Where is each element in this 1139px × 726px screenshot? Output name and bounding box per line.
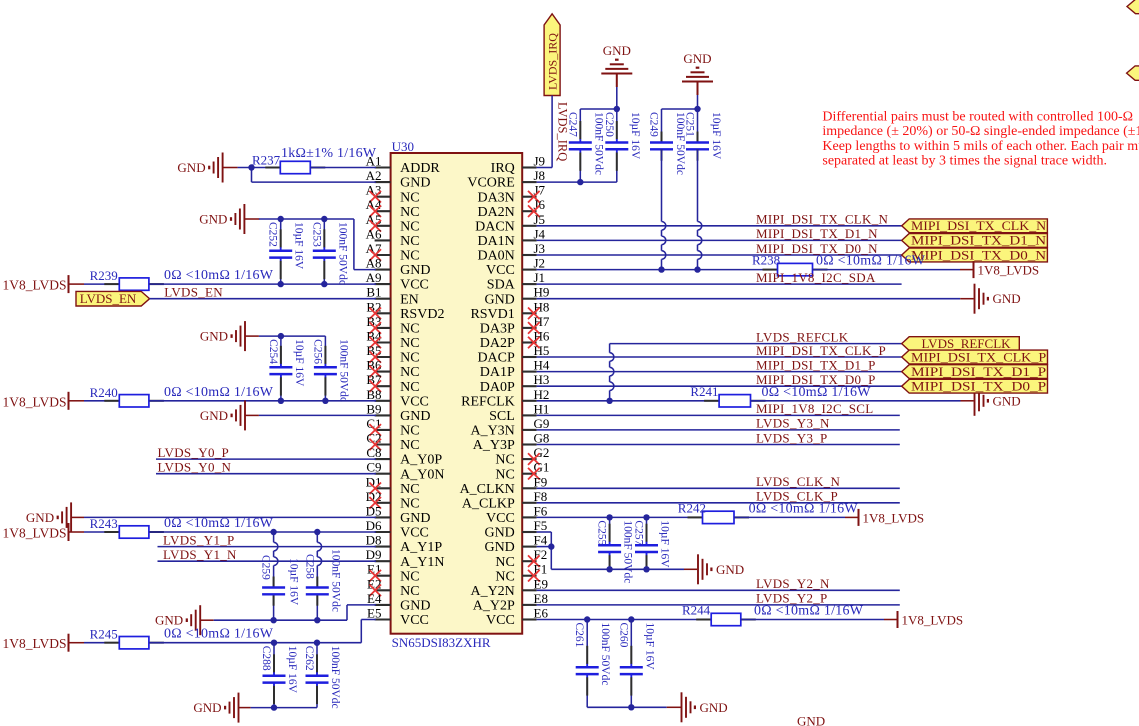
svg-text:GND: GND [603, 43, 631, 58]
pin E5 (VCC) [367, 606, 429, 629]
wire [537, 400, 720, 402]
port LVDS_REFCLK [902, 336, 1020, 351]
svg-text:MIPI_1V8_I2C_SCL: MIPI_1V8_I2C_SCL [756, 401, 873, 416]
svg-text:0Ω <10mΩ 1/16W: 0Ω <10mΩ 1/16W [762, 385, 872, 400]
capacitor C255 [596, 517, 634, 583]
svg-text:100nF 50Vdc: 100nF 50Vdc [622, 520, 634, 583]
svg-text:SDA: SDA [487, 278, 516, 293]
svg-text:10µF 16V: 10µF 16V [286, 646, 298, 694]
pin J7 (DA3N) [477, 183, 545, 206]
svg-text:DA3N: DA3N [477, 190, 514, 205]
svg-text:GND: GND [993, 393, 1021, 408]
power 1V8_LVDS (R245) [2, 634, 84, 652]
wire [610, 343, 902, 345]
svg-text:GND: GND [484, 540, 514, 555]
wire [149, 531, 376, 533]
capacitor C260 [617, 620, 655, 708]
svg-text:LVDS_EN: LVDS_EN [164, 285, 223, 300]
junction [314, 640, 320, 646]
pin G8 (A_Y3P) [473, 431, 550, 454]
power 1V8_LVDS (J2) [960, 261, 1039, 278]
svg-text:R242: R242 [678, 500, 706, 515]
svg-text:LVDS_Y0_P: LVDS_Y0_P [158, 445, 230, 460]
svg-text:A_CLKN: A_CLKN [460, 482, 515, 497]
svg-text:C260: C260 [617, 623, 629, 648]
pin J4 (DA1N) [477, 226, 545, 249]
net label MIPI_DSI_TX_CLK_N [756, 212, 889, 227]
junction [271, 640, 277, 646]
wire [214, 605, 376, 620]
svg-text:LVDS_CLK_N: LVDS_CLK_N [756, 474, 840, 489]
wire [84, 516, 376, 518]
svg-text:A2: A2 [366, 168, 382, 183]
ground (C250 stem) [601, 43, 632, 87]
wire [537, 298, 961, 300]
power 1V8_LVDS (B8) [2, 392, 84, 410]
port MIPI_DSI_TX_D1_N [902, 233, 1048, 248]
wire [616, 87, 618, 109]
port MIPI_DSI_TX_D1_P [902, 364, 1048, 379]
svg-text:VCORE: VCORE [467, 176, 514, 191]
svg-text:F4: F4 [534, 533, 548, 548]
svg-text:NC: NC [400, 380, 419, 395]
svg-text:1V8_LVDS: 1V8_LVDS [2, 636, 66, 651]
svg-text:MIPI_1V8_I2C_SDA: MIPI_1V8_I2C_SDA [756, 270, 876, 285]
resistor R239 [90, 268, 274, 290]
svg-text:A_Y1N: A_Y1N [400, 555, 444, 570]
svg-text:C249: C249 [648, 112, 660, 137]
wire [537, 532, 552, 569]
pin A8 (GND) [366, 256, 431, 279]
pin H4 (DA1P) [480, 358, 550, 381]
svg-text:0Ω <10mΩ 1/16W: 0Ω <10mΩ 1/16W [754, 604, 864, 619]
svg-text:VCC: VCC [400, 394, 429, 409]
pin F6 (VCC) [486, 503, 548, 526]
pin A9 (VCC) [366, 270, 429, 293]
svg-text:C258: C258 [303, 554, 315, 579]
svg-text:C255: C255 [596, 520, 608, 545]
capacitor C288 [260, 643, 298, 708]
capacitor C262 [303, 643, 341, 709]
svg-text:Keep lengths to within 5 mils: Keep lengths to within 5 mils of each ot… [822, 139, 1139, 154]
svg-text:0Ω <10mΩ 1/16W: 0Ω <10mΩ 1/16W [749, 501, 859, 516]
wire [537, 239, 902, 241]
wire [587, 706, 667, 708]
wire [259, 219, 376, 270]
pin B2 (RSVD2) [366, 299, 444, 322]
resistor R238 [752, 253, 926, 276]
capacitor C250 [603, 109, 641, 182]
svg-text:B9: B9 [366, 401, 381, 416]
junction [278, 398, 284, 404]
svg-text:J4: J4 [534, 226, 546, 241]
wire [251, 707, 317, 709]
ground (C254/C256) [200, 321, 259, 351]
svg-text:C250: C250 [603, 112, 615, 137]
pin C8 (A_Y0P) [366, 445, 442, 468]
svg-text:RSVD2: RSVD2 [400, 307, 444, 322]
wire [537, 414, 900, 416]
pin J5 (DACN) [475, 212, 545, 235]
svg-text:R239: R239 [90, 268, 118, 283]
svg-text:LVDS_Y3_P: LVDS_Y3_P [756, 430, 828, 445]
svg-text:A_Y2N: A_Y2N [470, 584, 514, 599]
net label MIPI_DSI_TX_D0_P [756, 372, 876, 387]
svg-text:R237: R237 [252, 153, 281, 168]
wire [537, 487, 900, 489]
capacitor C253 [310, 219, 348, 285]
svg-text:B8: B8 [366, 387, 381, 402]
wire [537, 96, 553, 168]
svg-text:F6: F6 [534, 503, 548, 518]
junction [321, 216, 327, 222]
svg-text:SN65DSI83ZXHR: SN65DSI83ZXHR [392, 635, 491, 650]
svg-text:R244: R244 [682, 603, 711, 618]
junction [270, 617, 276, 623]
pin A2 (GND) [366, 168, 431, 191]
svg-text:100nF 50Vdc: 100nF 50Vdc [336, 222, 348, 285]
port MIPI_DSI_TX_CLK_N [902, 218, 1048, 233]
junction [321, 281, 327, 287]
svg-text:NC: NC [495, 569, 514, 584]
net label LVDS_Y2_P [756, 591, 828, 606]
svg-text:separated at least by 3 times: separated at least by 3 times the signal… [822, 154, 1107, 169]
resistor R242 [678, 500, 859, 523]
svg-text:RSVD1: RSVD1 [470, 307, 514, 322]
svg-text:C8: C8 [366, 445, 381, 460]
pin G9 (A_Y3N) [470, 416, 549, 439]
svg-text:DA3P: DA3P [480, 322, 515, 337]
net label LVDS_Y0_P [158, 445, 230, 460]
svg-text:C251: C251 [684, 112, 696, 137]
port MIPI_DSI_TX_CLK_P [902, 349, 1048, 364]
net label LVDS_Y1_N [163, 547, 237, 562]
svg-text:DA2P: DA2P [480, 336, 515, 351]
svg-text:LVDS_IRQ: LVDS_IRQ [545, 33, 559, 90]
svg-text:GND: GND [400, 511, 430, 526]
pin J2 (VCC) [486, 256, 545, 279]
svg-text:E9: E9 [534, 576, 548, 591]
svg-text:MIPI_DSI_TX_D1_N: MIPI_DSI_TX_D1_N [756, 226, 878, 241]
junction [278, 281, 284, 287]
svg-text:DA0P: DA0P [480, 380, 515, 395]
junction [314, 529, 320, 535]
pin H7 (DA3P) [480, 314, 550, 337]
wire [158, 560, 377, 562]
pin B8 (VCC) [366, 387, 429, 410]
svg-text:GND: GND [26, 510, 54, 525]
svg-text:C254: C254 [267, 339, 279, 364]
svg-text:D6: D6 [366, 518, 382, 533]
svg-text:MIPI_DSI_TX_D1_P: MIPI_DSI_TX_D1_P [911, 364, 1046, 379]
wire [537, 356, 902, 358]
svg-text:GND: GND [700, 700, 728, 715]
svg-text:D8: D8 [366, 533, 382, 548]
resistor R243 [90, 516, 274, 538]
junction [658, 266, 664, 272]
svg-text:A_Y3P: A_Y3P [473, 438, 515, 453]
pin B9 (GND) [366, 401, 430, 424]
wire [537, 181, 617, 183]
pin A3 (NC) [366, 183, 420, 206]
wire [662, 108, 698, 110]
pin A7 (NC) [366, 241, 420, 264]
wire [537, 254, 902, 256]
net label LVDS_IRQ [556, 102, 570, 161]
port LVDS_EN [76, 291, 150, 306]
svg-text:H4: H4 [534, 358, 550, 373]
svg-text:NC: NC [400, 569, 419, 584]
ground (C261/C260 rail) [667, 692, 728, 722]
svg-text:E6: E6 [534, 606, 549, 621]
svg-text:MIPI_DSI_TX_D0_P: MIPI_DSI_TX_D0_P [756, 372, 876, 387]
capacitor C258 [303, 532, 341, 620]
pin D8 (A_Y1P) [366, 533, 443, 556]
svg-text:10µF 16V: 10µF 16V [293, 339, 305, 387]
wire [259, 335, 326, 337]
pin E1 (NC) [367, 562, 420, 585]
svg-text:0Ω <10mΩ 1/16W: 0Ω <10mΩ 1/16W [816, 254, 926, 269]
wire [310, 167, 376, 169]
svg-text:0Ω <10mΩ 1/16W: 0Ω <10mΩ 1/16W [164, 627, 274, 642]
svg-text:F8: F8 [534, 489, 548, 504]
junction [606, 514, 612, 520]
wire [84, 642, 119, 644]
ground (R241 net) [961, 386, 1021, 416]
svg-text:100nF 50Vdc: 100nF 50Vdc [337, 339, 349, 402]
net label LVDS_Y3_P [756, 430, 828, 445]
svg-text:MIPI_DSI_TX_CLK_N: MIPI_DSI_TX_CLK_N [756, 212, 889, 227]
svg-text:100nF 50Vdc: 100nF 50Vdc [329, 549, 341, 612]
power 1V8_LVDS (D6) [2, 523, 84, 541]
wire [537, 371, 902, 373]
svg-text:G8: G8 [534, 431, 550, 446]
svg-text:E5: E5 [367, 606, 381, 621]
svg-text:MIPI_DSI_TX_CLK_P: MIPI_DSI_TX_CLK_P [756, 343, 886, 358]
svg-text:R245: R245 [90, 627, 118, 642]
junction [694, 106, 700, 112]
net label LVDS_Y0_N [158, 460, 232, 475]
svg-text:H9: H9 [534, 285, 550, 300]
svg-text:GND: GND [155, 613, 183, 628]
svg-text:J5: J5 [534, 212, 546, 227]
port LVDS_IRQ [544, 14, 560, 96]
svg-text:10µF 16V: 10µF 16V [288, 558, 300, 606]
svg-text:C259: C259 [260, 555, 272, 580]
svg-text:10µF 16V: 10µF 16V [293, 222, 305, 270]
pin D9 (A_Y1N) [366, 547, 445, 570]
pin J9 (IRQ) [491, 154, 545, 177]
svg-text:ADDR: ADDR [400, 161, 440, 176]
svg-text:NC: NC [400, 584, 419, 599]
port MIPI_DSI_TX_D0_N [902, 247, 1048, 262]
pin J6 (DA2N) [477, 197, 545, 220]
net label LVDS_EN [164, 285, 223, 300]
svg-text:C288: C288 [260, 646, 272, 671]
svg-text:100nF 50Vdc: 100nF 50Vdc [329, 646, 341, 709]
svg-text:LVDS_Y1_N: LVDS_Y1_N [163, 547, 237, 562]
pin A4 (NC) [366, 197, 420, 220]
pin F8 (A_CLKP) [462, 489, 547, 512]
wire [149, 620, 376, 643]
port (partial, right) [1127, 66, 1139, 80]
junction [322, 398, 328, 404]
svg-text:GND: GND [200, 408, 228, 423]
net label MIPI_DSI_TX_D1_P [756, 357, 876, 372]
junction [548, 543, 554, 549]
pin H6 (DA2P) [480, 329, 550, 352]
pin A6 (NC) [366, 226, 420, 249]
svg-text:EN: EN [400, 292, 419, 307]
pin E8 (A_Y2P) [473, 591, 548, 614]
wire [84, 283, 119, 285]
wire [734, 516, 845, 518]
svg-text:D5: D5 [366, 503, 382, 518]
net label MIPI_1V8_I2C_SDA [756, 270, 876, 285]
svg-text:GND: GND [200, 329, 228, 344]
resistor R244 [682, 603, 864, 626]
svg-text:DA1N: DA1N [477, 234, 514, 249]
svg-text:0Ω <10mΩ 1/16W: 0Ω <10mΩ 1/16W [164, 385, 274, 400]
svg-text:J2: J2 [534, 256, 546, 271]
svg-text:H1: H1 [534, 401, 550, 416]
svg-text:0Ω <10mΩ 1/16W: 0Ω <10mΩ 1/16W [164, 268, 274, 283]
power 1V8_LVDS (E6) [884, 611, 963, 628]
svg-text:GND: GND [400, 409, 430, 424]
svg-text:C257: C257 [633, 520, 645, 545]
note text [822, 109, 1139, 168]
ground (C251 stem) [682, 51, 713, 95]
ground (C288/C262 rail) [193, 693, 250, 723]
wire [537, 283, 902, 285]
svg-text:MIPI_DSI_TX_D1_P: MIPI_DSI_TX_D1_P [756, 357, 876, 372]
svg-text:REFCLK: REFCLK [461, 394, 515, 409]
svg-text:GND: GND [400, 263, 430, 278]
pin E9 (A_Y2N) [470, 576, 547, 599]
ground (C252/C253) [199, 204, 259, 234]
svg-text:100nF 50Vdc: 100nF 50Vdc [599, 623, 611, 686]
pin D6 (VCC) [366, 518, 429, 541]
resistor R241 [690, 384, 871, 407]
wire [813, 269, 961, 271]
svg-text:1V8_LVDS: 1V8_LVDS [902, 613, 964, 628]
pin B5 (NC) [366, 343, 419, 366]
wire [751, 400, 961, 402]
pin H1 (SCL) [489, 401, 549, 424]
net label LVDS_CLK_N [756, 474, 840, 489]
wire [156, 473, 376, 475]
svg-text:D9: D9 [366, 547, 382, 562]
svg-text:C256: C256 [311, 339, 323, 364]
svg-text:MIPI_DSI_TX_CLK_P: MIPI_DSI_TX_CLK_P [911, 349, 1046, 364]
svg-text:SCL: SCL [489, 409, 515, 424]
svg-text:A_Y1P: A_Y1P [400, 540, 442, 555]
svg-text:H5: H5 [534, 343, 550, 358]
svg-text:LVDS_Y2_N: LVDS_Y2_N [756, 576, 830, 591]
svg-text:GND: GND [993, 291, 1021, 306]
svg-text:F9: F9 [534, 474, 548, 489]
pin J1 (SDA) [487, 270, 545, 293]
ground (D5) [26, 502, 84, 532]
capacitor C251 [684, 109, 723, 270]
junction [628, 704, 634, 710]
svg-text:C252: C252 [267, 222, 279, 247]
svg-text:R238: R238 [752, 253, 780, 268]
capacitor C259 [260, 532, 300, 620]
pin B4 (NC) [366, 329, 419, 352]
wire [537, 385, 902, 387]
wire [741, 619, 884, 621]
wire [156, 458, 376, 460]
svg-text:G9: G9 [534, 416, 550, 431]
svg-text:LVDS_Y3_N: LVDS_Y3_N [756, 416, 830, 431]
pin F5 (GND) [484, 518, 547, 541]
ground (H9) [960, 284, 1020, 314]
wire [537, 225, 902, 227]
pin H5 (DACP) [477, 343, 549, 366]
svg-text:DA1P: DA1P [480, 365, 515, 380]
svg-text:J8: J8 [534, 168, 546, 183]
svg-text:GND: GND [716, 562, 744, 577]
IC U30 SN65DSI83ZXHR body [391, 139, 523, 650]
wire [149, 283, 376, 285]
wire [537, 546, 552, 548]
svg-text:GND: GND [400, 176, 430, 191]
svg-text:A_CLKP: A_CLKP [462, 496, 515, 511]
pin E4 (GND) [367, 591, 430, 614]
pin J3 (DA0N) [477, 241, 545, 264]
svg-text:VCC: VCC [400, 278, 429, 293]
svg-text:GND: GND [683, 51, 711, 66]
power 1V8_LVDS (F6) [845, 509, 924, 526]
junction [278, 333, 284, 339]
svg-text:DACN: DACN [475, 219, 515, 234]
svg-text:NC: NC [400, 351, 419, 366]
resistor R245 [90, 627, 274, 649]
ground (F rail) [684, 554, 744, 584]
svg-text:NC: NC [400, 496, 419, 511]
net label LVDS_REFCLK [756, 329, 849, 344]
svg-text:GND: GND [484, 526, 514, 541]
net label LVDS_Y3_N [756, 416, 830, 431]
svg-text:C261: C261 [573, 623, 585, 648]
port (partial, top right) [1127, 0, 1139, 14]
net label MIPI_1V8_I2C_SCL [756, 401, 873, 416]
pin C9 (A_Y0N) [366, 460, 444, 483]
junction [694, 266, 700, 272]
svg-text:100nF 50Vdc: 100nF 50Vdc [592, 112, 604, 175]
svg-text:1V8_LVDS: 1V8_LVDS [863, 510, 925, 525]
svg-text:NC: NC [400, 322, 419, 337]
svg-text:10µF 16V: 10µF 16V [629, 112, 641, 160]
wire [537, 269, 778, 271]
pin D2 (NC) [366, 489, 420, 512]
svg-text:GND: GND [484, 292, 514, 307]
wire [537, 502, 900, 504]
wire [252, 168, 377, 183]
pin H9 (GND) [484, 285, 549, 308]
svg-text:A_Y2P: A_Y2P [473, 599, 515, 614]
pin B3 (NC) [366, 314, 419, 337]
junction [628, 616, 634, 622]
wire [537, 619, 712, 621]
svg-text:C9: C9 [366, 460, 381, 475]
net label LVDS_Y1_P [163, 532, 235, 547]
svg-text:MIPI_DSI_TX_D0_P: MIPI_DSI_TX_D0_P [911, 379, 1046, 394]
ground (partial, bottom) [797, 714, 825, 726]
wire [537, 429, 900, 431]
svg-text:1V8_LVDS: 1V8_LVDS [2, 526, 66, 541]
